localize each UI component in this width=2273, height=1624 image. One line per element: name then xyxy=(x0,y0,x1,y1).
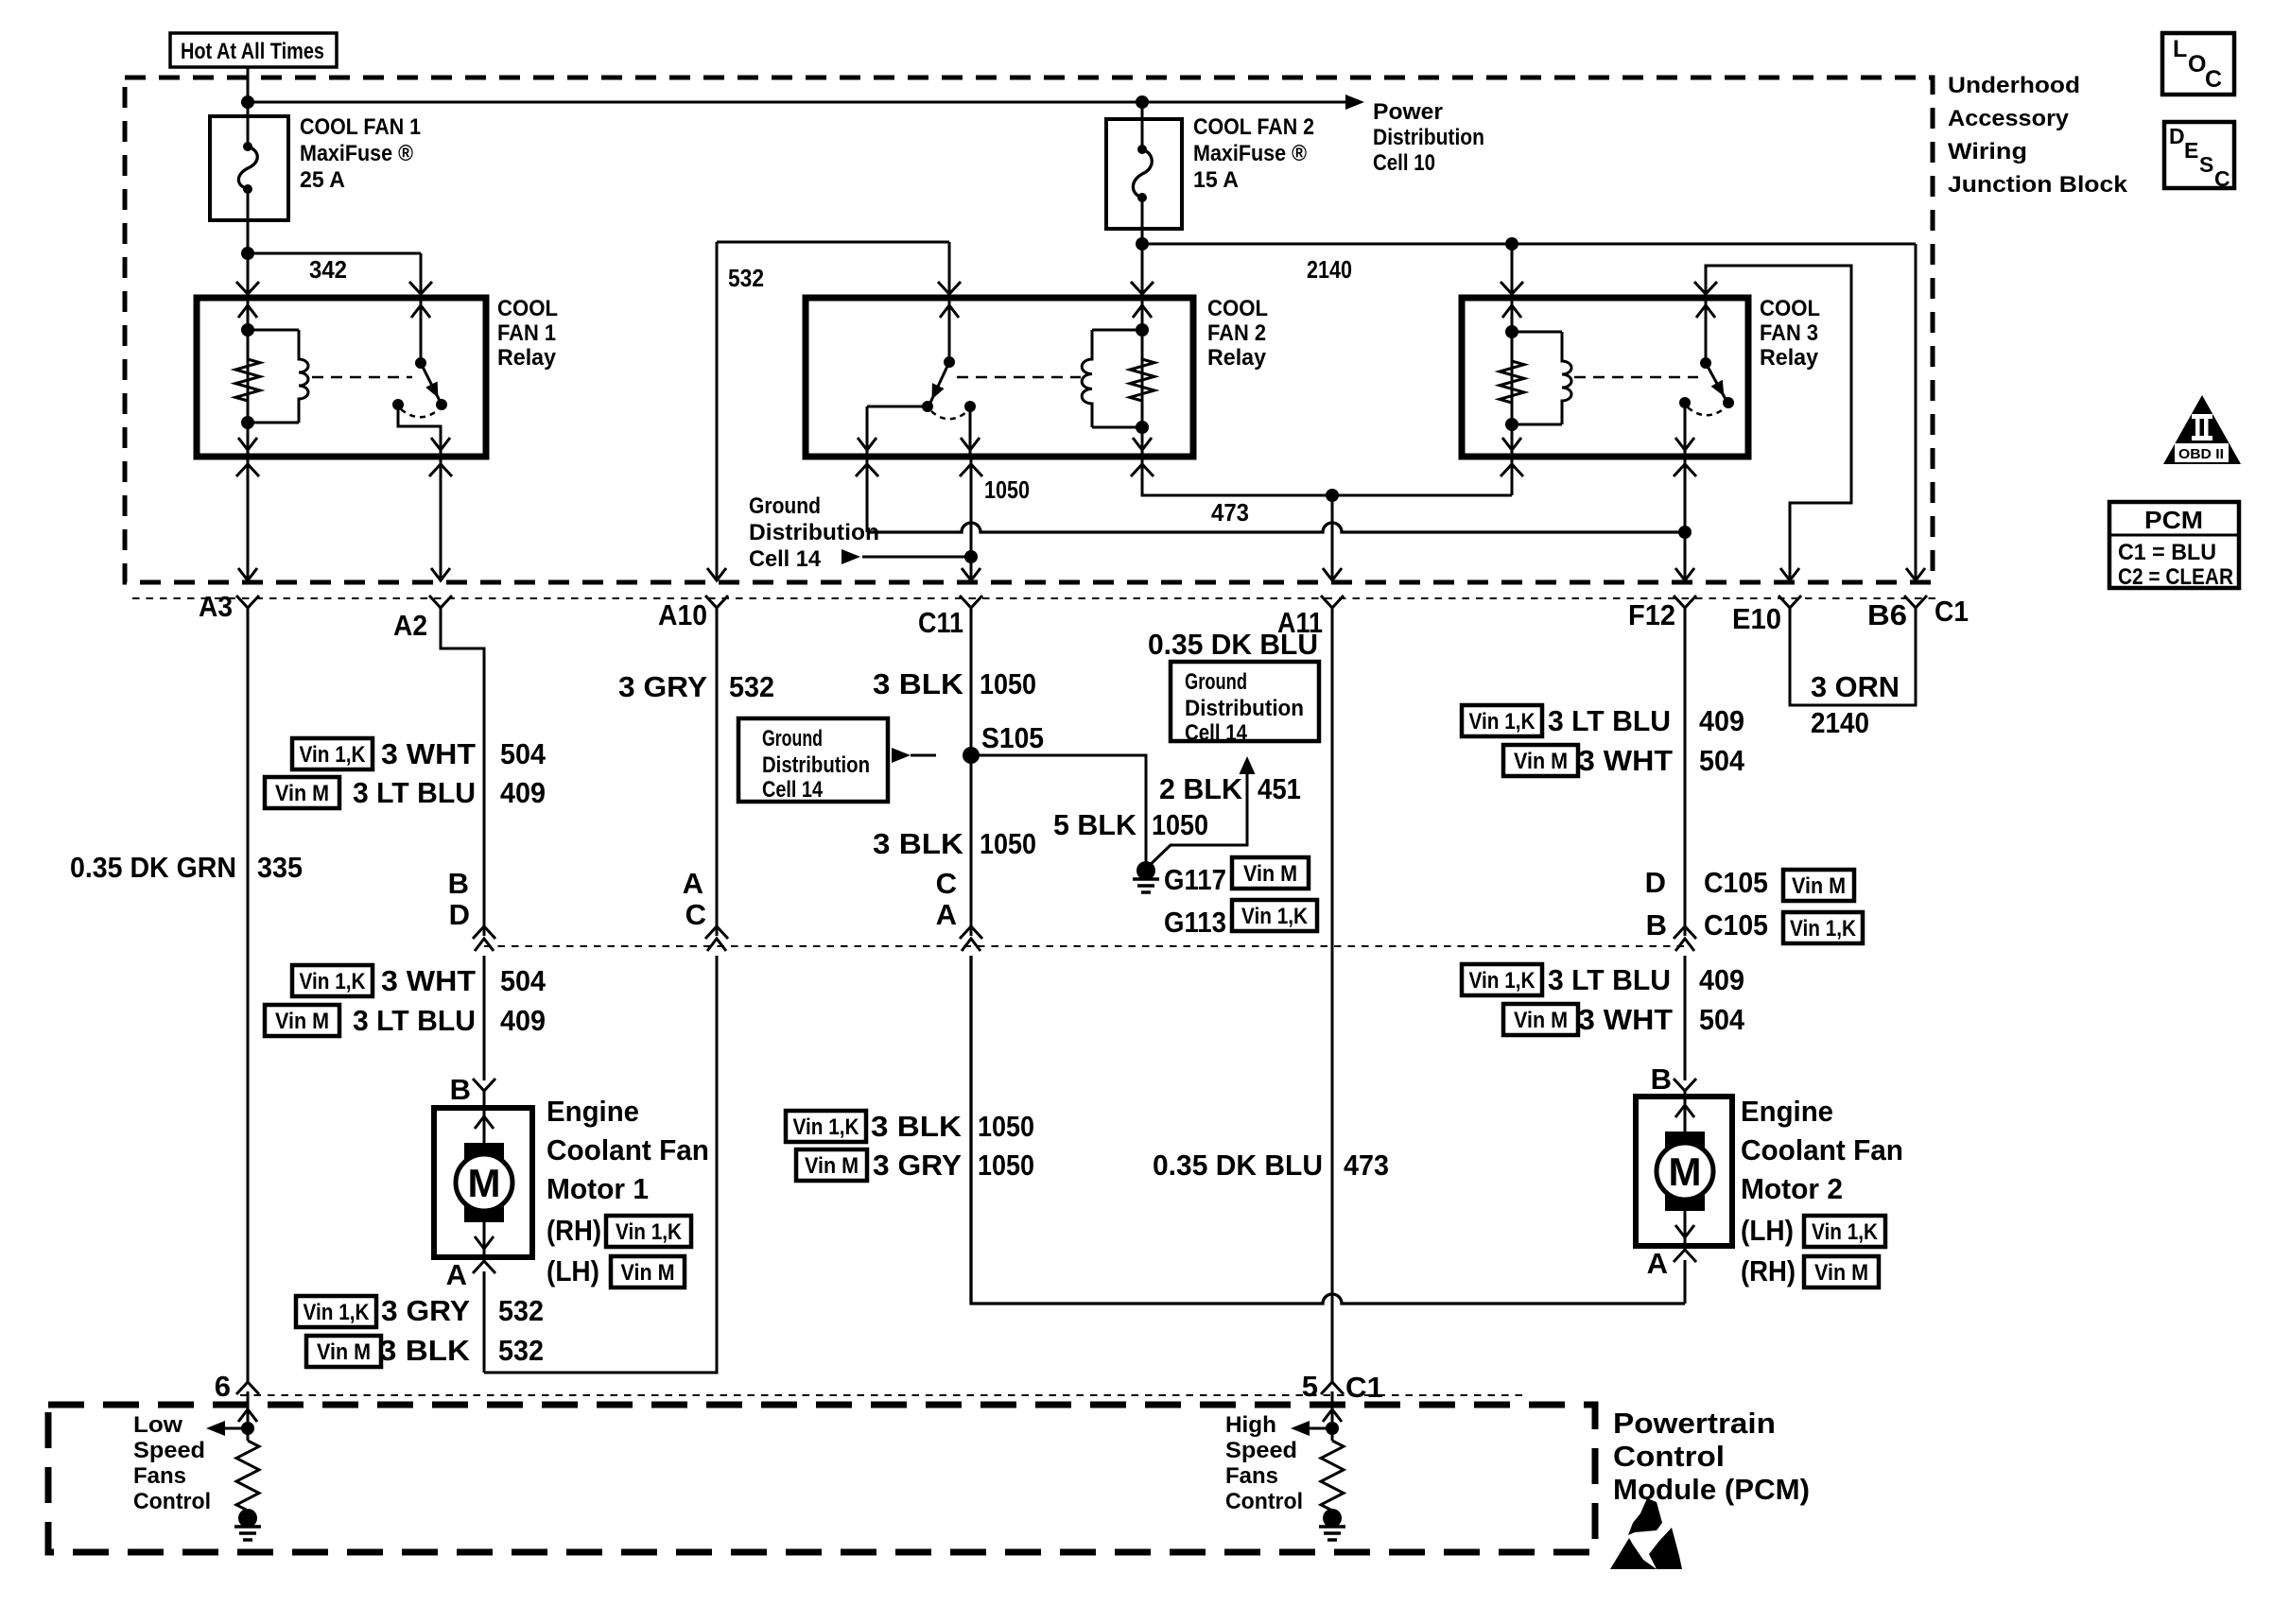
svg-text:Distribution: Distribution xyxy=(762,752,870,778)
svg-text:(LH): (LH) xyxy=(547,1254,599,1287)
svg-text:409: 409 xyxy=(500,776,546,809)
label Vin M 3 GRY 1050 xyxy=(796,1149,1034,1182)
svg-text:(LH): (LH) xyxy=(1741,1214,1794,1247)
pin B C105 Vin 1,K xyxy=(1646,908,1863,943)
svg-text:1050: 1050 xyxy=(984,475,1030,504)
svg-text:S105: S105 xyxy=(981,721,1044,754)
connector line C105 xyxy=(484,945,1685,947)
svg-text:Vin M: Vin M xyxy=(1243,861,1297,887)
pin A3 xyxy=(199,590,259,623)
svg-text:OBD II: OBD II xyxy=(2178,446,2224,462)
svg-text:COOL FAN 2: COOL FAN 2 xyxy=(1193,114,1314,140)
label Vin 1,K 3 LT BLU 409 right lower xyxy=(1462,963,1744,996)
svg-text:FAN 1: FAN 1 xyxy=(497,320,556,346)
svg-text:Underhood: Underhood xyxy=(1948,73,2080,98)
label Underhood Accessory Wiring Junction Block xyxy=(1948,73,2128,198)
svg-text:Junction Block: Junction Block xyxy=(1948,172,2128,198)
svg-text:Speed: Speed xyxy=(1225,1438,1297,1463)
svg-text:Vin 1,K: Vin 1,K xyxy=(304,1300,371,1325)
pin A2 xyxy=(393,596,452,642)
svg-text:Powertrain: Powertrain xyxy=(1613,1407,1776,1440)
svg-text:D: D xyxy=(1645,866,1666,899)
svg-text:Vin M: Vin M xyxy=(1792,873,1846,899)
svg-text:532: 532 xyxy=(498,1334,544,1367)
svg-text:3 WHT: 3 WHT xyxy=(381,737,476,770)
wire circuit 473 relay coils to A11 xyxy=(1131,457,1523,580)
pin E10 xyxy=(1732,596,1801,635)
svg-text:Fans: Fans xyxy=(1225,1463,1278,1489)
PCM connector legend box xyxy=(2109,502,2239,590)
svg-text:3 GRY: 3 GRY xyxy=(381,1294,470,1327)
svg-text:1050: 1050 xyxy=(1152,808,1208,841)
svg-text:2140: 2140 xyxy=(1811,706,1869,739)
svg-text:3 BLK: 3 BLK xyxy=(871,1110,963,1143)
svg-text:C2 = CLEAR: C2 = CLEAR xyxy=(2118,564,2233,590)
svg-text:3 LT BLU: 3 LT BLU xyxy=(353,1004,476,1037)
svg-text:Control: Control xyxy=(133,1489,211,1514)
svg-text:451: 451 xyxy=(1258,772,1301,805)
svg-text:Motor 2: Motor 2 xyxy=(1741,1172,1843,1205)
label Vin M 3 BLK 532 xyxy=(306,1334,544,1367)
arrow ground distribution left xyxy=(892,748,936,763)
svg-text:C: C xyxy=(936,867,957,900)
wire circuit 532 A10 to relay 2 switch xyxy=(707,242,961,580)
label Low Speed Fans Control xyxy=(133,1412,211,1514)
svg-text:COOL FAN 1: COOL FAN 1 xyxy=(300,114,421,140)
label Vin 1,K 3 WHT 504 lower xyxy=(292,964,547,997)
svg-text:Low: Low xyxy=(133,1412,182,1438)
svg-text:O: O xyxy=(2188,51,2206,78)
svg-text:Control: Control xyxy=(1613,1440,1725,1473)
svg-text:5 BLK: 5 BLK xyxy=(1053,808,1137,841)
svg-text:1050: 1050 xyxy=(978,1149,1034,1182)
svg-text:Relay: Relay xyxy=(1760,345,1819,371)
svg-text:3 BLK: 3 BLK xyxy=(873,667,964,700)
svg-text:C1 = BLU: C1 = BLU xyxy=(2118,540,2216,565)
svg-text:C: C xyxy=(685,898,706,931)
wire relay 1 switch output to A2 xyxy=(429,457,452,580)
fuse COOL FAN 1 MaxiFuse 25 A xyxy=(210,116,288,220)
label Powertrain Control Module (PCM) xyxy=(1613,1407,1810,1506)
label 3 ORN 2140 xyxy=(1811,670,1900,739)
svg-text:M: M xyxy=(468,1161,501,1205)
svg-text:Distribution: Distribution xyxy=(749,520,879,545)
LOC reference box xyxy=(2162,33,2234,95)
svg-text:409: 409 xyxy=(1699,704,1744,737)
svg-text:1050: 1050 xyxy=(978,1110,1034,1143)
svg-text:E10: E10 xyxy=(1732,602,1781,635)
label COOL FAN 1 MaxiFuse 25 A xyxy=(300,114,421,193)
svg-text:Ground: Ground xyxy=(1185,669,1247,695)
wire circuit 2140 fuse 2 to relay 3 and B6 xyxy=(1131,229,1925,580)
label Ground Distribution Cell 14 right box xyxy=(1171,662,1319,746)
wire power bus to Power Distribution xyxy=(248,101,1347,104)
svg-text:(RH): (RH) xyxy=(547,1214,601,1247)
wire relay 3 switch output to F12 xyxy=(1674,457,1696,580)
svg-text:1050: 1050 xyxy=(980,667,1036,700)
Powertrain Control Module dashed outline xyxy=(48,1405,1595,1552)
pin C A C105 middle xyxy=(936,867,957,931)
svg-text:High: High xyxy=(1225,1412,1276,1438)
relay K2 COOL FAN 2 Relay xyxy=(806,298,1193,457)
svg-text:Vin 1,K: Vin 1,K xyxy=(1469,968,1536,993)
wire circuit 1050 S105 to G117 xyxy=(971,755,1146,862)
svg-text:Engine: Engine xyxy=(547,1095,639,1128)
svg-text:15 A: 15 A xyxy=(1193,167,1239,193)
wire circuit 473 A11 to PCM pin 5 xyxy=(1331,608,1334,1382)
pin 6 PCM xyxy=(215,1370,259,1403)
svg-text:C1: C1 xyxy=(1345,1371,1383,1404)
svg-text:532: 532 xyxy=(498,1294,544,1327)
svg-text:D: D xyxy=(449,898,470,931)
svg-text:C11: C11 xyxy=(918,606,963,639)
pin A11 xyxy=(1277,596,1344,639)
fuse COOL FAN 2 MaxiFuse 15 A xyxy=(1106,102,1182,229)
label Vin M 3 WHT 504 right lower xyxy=(1503,1003,1745,1036)
svg-text:473: 473 xyxy=(1344,1149,1389,1182)
svg-text:3 WHT: 3 WHT xyxy=(381,964,476,997)
svg-text:Vin 1,K: Vin 1,K xyxy=(793,1114,860,1140)
svg-text:Speed: Speed xyxy=(133,1438,205,1463)
svg-text:Motor 1: Motor 1 xyxy=(547,1172,649,1205)
wire circuit 1050 below S105 xyxy=(970,755,973,936)
wire circuit 2140 3 ORN B6 to E10 xyxy=(1790,608,1916,705)
low speed fans control driver xyxy=(206,1391,261,1540)
svg-text:B: B xyxy=(450,1073,471,1106)
wire circuit 335 A3 to PCM pin 6 xyxy=(247,608,250,1382)
svg-text:532: 532 xyxy=(729,670,774,703)
label COOL FAN 3 Relay xyxy=(1760,296,1820,371)
svg-text:Distribution: Distribution xyxy=(1373,125,1484,150)
svg-text:3 LT BLU: 3 LT BLU xyxy=(353,776,476,809)
svg-text:5: 5 xyxy=(1302,1370,1318,1403)
svg-text:M: M xyxy=(1669,1149,1702,1194)
svg-text:Vin M: Vin M xyxy=(1814,1260,1868,1286)
label Vin 1,K 3 WHT 504 upper xyxy=(292,737,547,770)
svg-text:Vin 1,K: Vin 1,K xyxy=(616,1219,683,1245)
label COOL FAN 1 Relay xyxy=(497,296,558,371)
wire circuit 532 A10 to motor 1 pin A xyxy=(484,608,728,1373)
svg-text:3 WHT: 3 WHT xyxy=(1578,744,1673,777)
svg-text:3 BLK: 3 BLK xyxy=(379,1334,471,1367)
svg-text:Power: Power xyxy=(1373,99,1443,125)
label 3 BLK 1050 upper xyxy=(873,667,1036,700)
relay K3 COOL FAN 3 Relay xyxy=(1462,298,1748,457)
svg-text:Accessory: Accessory xyxy=(1948,106,2070,131)
svg-text:B: B xyxy=(448,867,469,900)
svg-text:Control: Control xyxy=(1225,1489,1303,1514)
svg-text:COOL: COOL xyxy=(1760,296,1820,321)
svg-text:Vin 1,K: Vin 1,K xyxy=(300,969,367,994)
arrow to Power Distribution Cell 10 xyxy=(1345,95,1364,110)
svg-text:G113: G113 xyxy=(1164,906,1226,939)
svg-text:D: D xyxy=(2169,124,2185,148)
svg-text:Vin 1,K: Vin 1,K xyxy=(300,742,367,768)
node S105 xyxy=(963,747,980,764)
svg-text:S: S xyxy=(2199,152,2213,177)
svg-text:Wiring: Wiring xyxy=(1948,139,2027,164)
motor M2 Engine Coolant Fan Motor 2 xyxy=(1636,1079,1732,1304)
wire relay 2 output circuit 1050 to C11 xyxy=(960,457,982,580)
label Ground Distribution Cell 14 left box xyxy=(738,718,888,803)
node power junction at fuse 1 tap xyxy=(241,95,254,109)
svg-text:3 WHT: 3 WHT xyxy=(1578,1003,1673,1036)
wire relay 2 switch output to F12 (horizontal) xyxy=(856,457,1692,539)
svg-text:Vin 1,K: Vin 1,K xyxy=(1812,1219,1879,1245)
label Engine Coolant Fan Motor 2 xyxy=(1741,1095,1903,1287)
pin F12 xyxy=(1628,596,1696,631)
svg-text:COOL: COOL xyxy=(497,296,558,321)
connector line PCM C1 xyxy=(240,1394,1522,1396)
pin D C105 Vin M xyxy=(1645,866,1854,901)
label 3 BLK 1050 lower xyxy=(873,827,1036,860)
svg-text:0.35 DK BLU: 0.35 DK BLU xyxy=(1153,1149,1323,1182)
svg-text:3 GRY: 3 GRY xyxy=(618,670,707,703)
svg-text:Hot At All Times: Hot At All Times xyxy=(181,39,324,64)
svg-text:Coolant Fan: Coolant Fan xyxy=(547,1133,709,1166)
label G117 Vin M xyxy=(1164,857,1309,896)
svg-text:Vin M: Vin M xyxy=(1514,1008,1568,1033)
label 0.35 DK BLU 473 xyxy=(1153,1149,1389,1182)
svg-text:409: 409 xyxy=(500,1004,546,1037)
Underhood Accessory Wiring Junction Block dashed outline xyxy=(125,78,1933,582)
label 2 BLK 451 xyxy=(1159,772,1301,805)
svg-text:532: 532 xyxy=(728,264,764,292)
svg-text:Engine: Engine xyxy=(1741,1095,1833,1128)
wire circuit 451 G117 to ground distribution xyxy=(1146,756,1256,869)
svg-text:25 A: 25 A xyxy=(300,167,345,193)
svg-text:3 ORN: 3 ORN xyxy=(1811,670,1900,703)
svg-text:L: L xyxy=(2173,36,2187,62)
label Vin M 3 LT BLU 409 upper xyxy=(265,776,546,809)
wire battery feed to fuse 1 xyxy=(247,67,250,116)
wire circuit 342 fuse 1 to relay 1 xyxy=(236,220,432,298)
label Ground Distribution Cell 14 internal xyxy=(749,493,879,572)
svg-text:473: 473 xyxy=(1211,498,1249,527)
node power junction at fuse 2 tap xyxy=(1136,95,1149,109)
relay K1 COOL FAN 1 Relay xyxy=(197,298,486,457)
wire circuit 504/409 A2 to motor 1 pin B xyxy=(441,608,495,1080)
pin B6 xyxy=(1867,596,1927,631)
svg-text:C: C xyxy=(2205,66,2222,93)
svg-text:Vin M: Vin M xyxy=(317,1339,371,1365)
label Vin 1,K 3 LT BLU 409 right upper xyxy=(1462,704,1744,737)
battery feed label Hot At All Times xyxy=(170,33,337,67)
svg-text:Vin M: Vin M xyxy=(1514,749,1568,774)
svg-text:E: E xyxy=(2184,138,2198,163)
pin A C105 mid-left xyxy=(683,867,706,931)
label COOL FAN 2 MaxiFuse 15 A xyxy=(1193,114,1314,193)
svg-text:6: 6 xyxy=(215,1370,231,1403)
connector line junction block C1 xyxy=(132,597,1938,599)
svg-text:A3: A3 xyxy=(199,590,233,623)
svg-text:Cell 14: Cell 14 xyxy=(1185,720,1248,746)
svg-text:Fans: Fans xyxy=(133,1463,186,1489)
svg-text:3 BLK: 3 BLK xyxy=(873,827,964,860)
svg-text:Module (PCM): Module (PCM) xyxy=(1613,1473,1810,1506)
label 0.35 DK GRN 335 xyxy=(70,851,303,884)
svg-text:Distribution: Distribution xyxy=(1185,696,1304,721)
svg-text:Vin M: Vin M xyxy=(275,781,329,806)
svg-text:3 LT BLU: 3 LT BLU xyxy=(1548,963,1671,996)
svg-text:A: A xyxy=(683,867,703,900)
svg-text:MaxiFuse ®: MaxiFuse ® xyxy=(300,141,413,166)
svg-text:1050: 1050 xyxy=(980,827,1036,860)
label Power Distribution Cell 10 xyxy=(1373,99,1484,176)
label 5 BLK 1050 xyxy=(1053,808,1208,841)
svg-text:3 LT BLU: 3 LT BLU xyxy=(1548,704,1671,737)
svg-text:Vin 1,K: Vin 1,K xyxy=(1241,904,1309,929)
svg-text:342: 342 xyxy=(309,255,347,284)
svg-text:C: C xyxy=(2214,166,2230,191)
svg-text:A10: A10 xyxy=(658,598,707,631)
svg-text:335: 335 xyxy=(257,851,303,884)
pin 5 C1 PCM xyxy=(1302,1370,1383,1404)
svg-text:Relay: Relay xyxy=(497,345,557,371)
pin C11 xyxy=(918,596,982,639)
wire relay 3 switch feed from E10 xyxy=(1694,266,1851,580)
wire circuit 409/504 F12 to motor 2 pin B xyxy=(1674,608,1696,1080)
svg-text:504: 504 xyxy=(1699,744,1745,777)
ground G117 xyxy=(1133,861,1159,892)
svg-text:(RH): (RH) xyxy=(1741,1254,1796,1287)
svg-text:A: A xyxy=(936,898,957,931)
svg-text:G117: G117 xyxy=(1164,863,1226,896)
svg-text:504: 504 xyxy=(500,737,547,770)
svg-text:F12: F12 xyxy=(1628,598,1675,631)
svg-text:Cell 10: Cell 10 xyxy=(1373,150,1435,176)
motor M1 Engine Coolant Fan Motor 1 xyxy=(434,1079,532,1373)
wire relay 1 coil output to A3 xyxy=(236,457,259,580)
svg-text:504: 504 xyxy=(1699,1003,1745,1036)
OBD II symbol xyxy=(2163,395,2241,464)
svg-text:Coolant Fan: Coolant Fan xyxy=(1741,1133,1903,1166)
svg-text:409: 409 xyxy=(1699,963,1744,996)
svg-text:Ground: Ground xyxy=(762,726,823,752)
svg-text:FAN 3: FAN 3 xyxy=(1760,320,1818,346)
svg-text:B: B xyxy=(1651,1063,1672,1096)
svg-text:A: A xyxy=(1647,1247,1668,1280)
wire circuit 1050 C11 to S105 xyxy=(960,608,982,951)
svg-text:2 BLK: 2 BLK xyxy=(1159,772,1243,805)
svg-text:C105: C105 xyxy=(1704,866,1768,899)
label Engine Coolant Fan Motor 1 xyxy=(547,1095,709,1287)
label 3 GRY 532 xyxy=(618,670,774,703)
svg-text:Cell 14: Cell 14 xyxy=(762,777,824,803)
svg-text:Relay: Relay xyxy=(1207,345,1267,371)
wire ground distribution link to C11 node xyxy=(862,556,971,559)
DESC reference box xyxy=(2164,122,2234,191)
svg-text:FAN 2: FAN 2 xyxy=(1207,320,1266,346)
pin B C105 left xyxy=(448,867,470,931)
svg-text:3 GRY: 3 GRY xyxy=(873,1149,962,1182)
svg-text:C105: C105 xyxy=(1704,908,1768,942)
svg-text:B: B xyxy=(1646,908,1667,942)
label Vin M 3 WHT 504 right upper xyxy=(1503,744,1745,777)
label Vin 1,K 3 BLK 1050 xyxy=(786,1110,1034,1143)
wire circuit 1050 motor 2 pin A to C11 xyxy=(971,956,1685,1304)
svg-text:Vin M: Vin M xyxy=(275,1009,329,1034)
label Vin 1,K 3 GRY 532 xyxy=(296,1294,544,1327)
svg-text:Ground: Ground xyxy=(749,493,821,519)
svg-text:MaxiFuse ®: MaxiFuse ® xyxy=(1193,141,1307,166)
label G113 Vin 1,K xyxy=(1164,900,1317,939)
svg-text:Vin M: Vin M xyxy=(805,1153,859,1179)
svg-text:Vin M: Vin M xyxy=(621,1260,675,1286)
svg-text:C1: C1 xyxy=(1935,595,1969,628)
svg-text:0.35 DK BLU: 0.35 DK BLU xyxy=(1148,628,1318,661)
svg-text:A: A xyxy=(446,1258,467,1291)
arrow ground distribution cell 14 internal xyxy=(842,549,860,564)
svg-text:COOL: COOL xyxy=(1207,296,1268,321)
svg-text:Vin 1,K: Vin 1,K xyxy=(1469,709,1536,734)
svg-text:Vin 1,K: Vin 1,K xyxy=(1790,916,1857,942)
high speed fans control driver xyxy=(1291,1391,1345,1540)
svg-text:PCM: PCM xyxy=(2144,506,2203,534)
svg-text:0.35 DK GRN: 0.35 DK GRN xyxy=(70,851,236,884)
svg-text:A2: A2 xyxy=(393,609,427,642)
svg-text:B6: B6 xyxy=(1867,598,1907,631)
ESD sensitive symbol xyxy=(1610,1498,1682,1569)
svg-text:2140: 2140 xyxy=(1307,255,1352,284)
label High Speed Fans Control xyxy=(1225,1412,1303,1514)
pin A10 xyxy=(658,596,728,631)
svg-text:504: 504 xyxy=(500,964,547,997)
label COOL FAN 2 Relay xyxy=(1207,296,1268,371)
label Vin M 3 LT BLU 409 lower xyxy=(265,1004,546,1037)
svg-text:Cell 14: Cell 14 xyxy=(749,546,822,572)
